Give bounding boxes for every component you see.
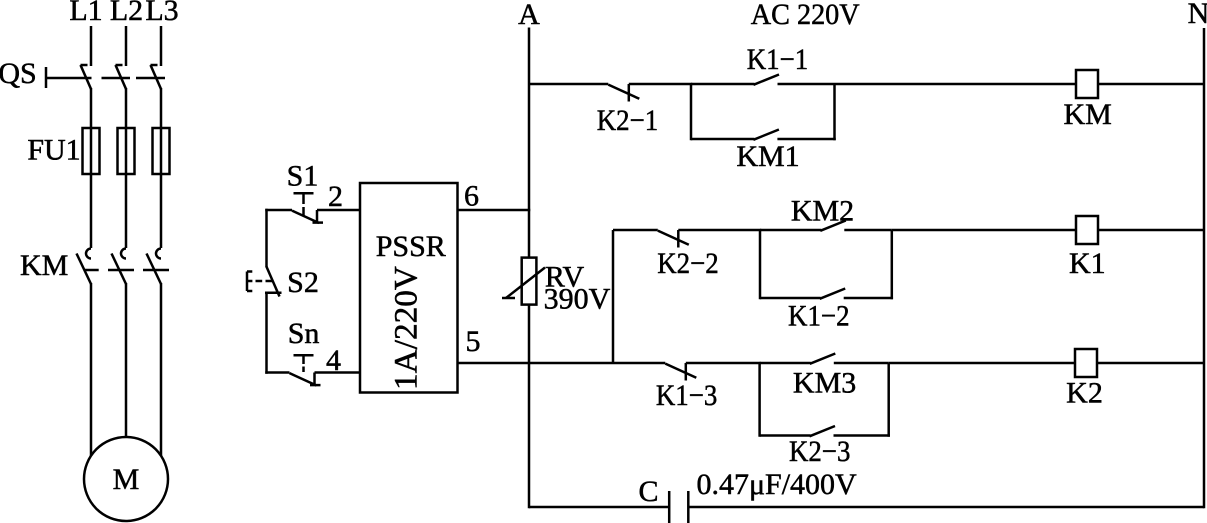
- contactor contact KM3 (NO): [810, 354, 836, 364]
- svg-text:K1: K1: [1069, 247, 1106, 280]
- relay contact K1-1 (NO): [754, 75, 780, 85]
- wire L2 QS to KM (through fuse): [125, 88, 128, 248]
- button S2 actuator dash 1: [256, 280, 263, 283]
- wire rung3 K1-3 to branch: [686, 362, 761, 365]
- wire branch1 top left: [691, 83, 755, 86]
- coil KM: [1076, 70, 1098, 98]
- switch QS pole 3: [151, 65, 162, 89]
- node 5 wire pin5 to rung3: [457, 362, 666, 365]
- wire rung2 K1 coil to N: [1098, 229, 1204, 232]
- svg-text:K1−2: K1−2: [788, 300, 850, 333]
- contactor KM link dash 1: [85, 269, 99, 272]
- fuse FU1 b: [118, 128, 135, 174]
- relay contact K2-3 (NO): [810, 426, 836, 436]
- wire rung1 KM coil to N: [1098, 83, 1204, 86]
- button S2 actuator dash 2: [266, 280, 273, 283]
- wire rung3 to K2 coil: [889, 362, 1075, 365]
- svg-text:K2: K2: [1066, 377, 1103, 410]
- svg-text:0.47μF/400V: 0.47μF/400V: [696, 468, 857, 501]
- relay contact K2-1 (NC): [608, 85, 639, 99]
- wire left to S1: [265, 209, 292, 212]
- svg-text:KM: KM: [1064, 98, 1112, 131]
- wire branch2 right vertical: [891, 230, 894, 299]
- contactor KM pole 3: [156, 249, 161, 259]
- svg-text:L3: L3: [145, 0, 178, 27]
- relay contact K1-2 (NO): [820, 289, 846, 299]
- wire branch3 left vertical: [758, 363, 761, 437]
- relay contact K2-2 (NC): [658, 231, 689, 245]
- wire L3 QS to KM (through fuse): [160, 88, 163, 248]
- svg-text:K2−1: K2−1: [597, 104, 659, 137]
- svg-text:M: M: [113, 463, 140, 496]
- wire branch3 top right: [834, 362, 889, 365]
- wire L1 QS to KM (through fuse): [90, 88, 93, 248]
- switch QS link dash 3: [136, 77, 165, 80]
- button Sn actuator dash 2: [302, 367, 305, 373]
- wire branch2 bottom right: [844, 297, 893, 300]
- wire branch1 left vertical: [690, 84, 693, 140]
- wire rung3 K2 coil to N: [1097, 362, 1204, 365]
- button Sn contact: [290, 373, 317, 385]
- button S1 actuator dash 2: [302, 207, 305, 217]
- contactor KM pole 2: [121, 249, 126, 259]
- button S2 contact: [266, 266, 279, 296]
- button Sn actuator: [294, 354, 314, 357]
- svg-text:FU1: FU1: [27, 134, 80, 167]
- contactor KM pole 1: [86, 249, 91, 259]
- svg-text:5: 5: [466, 325, 481, 358]
- button S1 actuator: [294, 192, 314, 195]
- svg-text:L1: L1: [69, 0, 102, 27]
- wire bottom left: [529, 506, 669, 509]
- wire rung2 K2-2 to branch: [678, 229, 761, 232]
- svg-text:K1−3: K1−3: [656, 379, 718, 412]
- node 2 wire: [317, 209, 361, 212]
- svg-text:K2−2: K2−2: [657, 247, 719, 280]
- svg-text:Sn: Sn: [288, 317, 320, 350]
- svg-text:KM1: KM1: [736, 140, 799, 173]
- svg-text:A: A: [518, 0, 540, 31]
- switch QS linkage bar: [45, 67, 48, 88]
- varistor RV stroke: [506, 268, 545, 299]
- wire branch3 right vertical: [887, 363, 890, 437]
- varistor RV body: [522, 258, 537, 305]
- button S1 contact: [292, 211, 319, 223]
- wire rail N: [1203, 28, 1206, 508]
- wire rung2 feed vertical: [612, 230, 615, 363]
- switch QS link dash 2: [102, 77, 131, 80]
- capacitor C plates: [668, 491, 671, 523]
- svg-text:K2−3: K2−3: [789, 435, 851, 468]
- switch QS pole 1: [81, 65, 92, 89]
- wire rung2 to K1 coil: [892, 229, 1076, 232]
- wire branch3 bottom left: [760, 434, 811, 437]
- wire branch2 bottom left: [760, 297, 821, 300]
- svg-text:L2: L2: [110, 0, 143, 27]
- wire branch1 bottom left: [691, 138, 754, 141]
- button Sn actuator dash 1: [302, 357, 305, 365]
- node 6 wire: [457, 209, 531, 212]
- svg-text:S1: S1: [287, 160, 319, 193]
- wire left branch upper: [265, 209, 268, 267]
- svg-text:KM2: KM2: [791, 195, 854, 228]
- wire phase L1 top: [90, 26, 93, 66]
- svg-text:K1−1: K1−1: [747, 43, 809, 76]
- coil K1: [1076, 216, 1098, 244]
- wire rung1 K2-1 to branch: [629, 83, 692, 86]
- wire branch3 bottom right: [834, 434, 890, 437]
- svg-text:S2: S2: [287, 266, 319, 299]
- relay contact K1-3 (NC): [665, 364, 696, 378]
- wire branch2 top right: [844, 229, 892, 232]
- contactor contact KM1 (NO): [753, 130, 779, 140]
- wire L2 KM-motor: [125, 283, 128, 450]
- wire rung2 from feed: [613, 229, 658, 232]
- button S2 actuator dash 0: [247, 280, 252, 283]
- svg-text:390V: 390V: [544, 283, 611, 316]
- wire branch1 right vertical: [833, 84, 836, 140]
- fuse FU1 c: [153, 128, 170, 174]
- svg-text:C: C: [638, 475, 658, 508]
- button S2 actuator E: [246, 272, 249, 292]
- wire branch2 left vertical: [759, 230, 762, 299]
- coil K2: [1075, 349, 1097, 377]
- wire branch2 top left: [760, 229, 821, 232]
- svg-text:KM: KM: [20, 249, 68, 282]
- svg-text:6: 6: [464, 180, 479, 213]
- wire rung1 to KM coil: [835, 83, 1077, 86]
- contactor KM link dash 3: [143, 269, 169, 272]
- wire bottom right: [688, 506, 1204, 509]
- button S1 actuator dash 1: [302, 195, 305, 205]
- fuse FU1 a: [83, 128, 100, 174]
- wire rail A lower: [528, 304, 531, 508]
- wire branch3 top left: [760, 362, 811, 365]
- svg-text:QS: QS: [0, 57, 37, 90]
- wire left to Sn: [265, 371, 289, 374]
- wire rung1 from A: [529, 83, 608, 86]
- contactor contact KM2 (NO): [820, 221, 846, 231]
- svg-text:PSSR: PSSR: [376, 230, 446, 263]
- node 4 wire: [315, 371, 362, 374]
- op-amp U1 PSSR box: [360, 183, 458, 393]
- svg-text:1A/220V: 1A/220V: [389, 266, 425, 390]
- wire phase L3 top: [160, 26, 163, 66]
- wire branch1 top right: [778, 83, 835, 86]
- switch QS pole 2: [116, 65, 127, 89]
- svg-text:N: N: [1188, 0, 1207, 30]
- contactor KM link dash 2: [108, 269, 134, 272]
- motor M circle: [84, 437, 168, 521]
- wire left branch lower: [265, 293, 268, 374]
- wire L1 KM-motor: [90, 283, 93, 470]
- svg-text:KM3: KM3: [793, 367, 856, 400]
- wire branch1 bottom right: [777, 138, 835, 141]
- wire phase L2 top: [125, 26, 128, 66]
- svg-text:4: 4: [326, 344, 341, 377]
- svg-text:2: 2: [328, 180, 343, 213]
- wire rail A upper: [528, 28, 531, 259]
- wire L3 KM-motor: [160, 283, 163, 470]
- svg-text:AC 220V: AC 220V: [751, 0, 860, 31]
